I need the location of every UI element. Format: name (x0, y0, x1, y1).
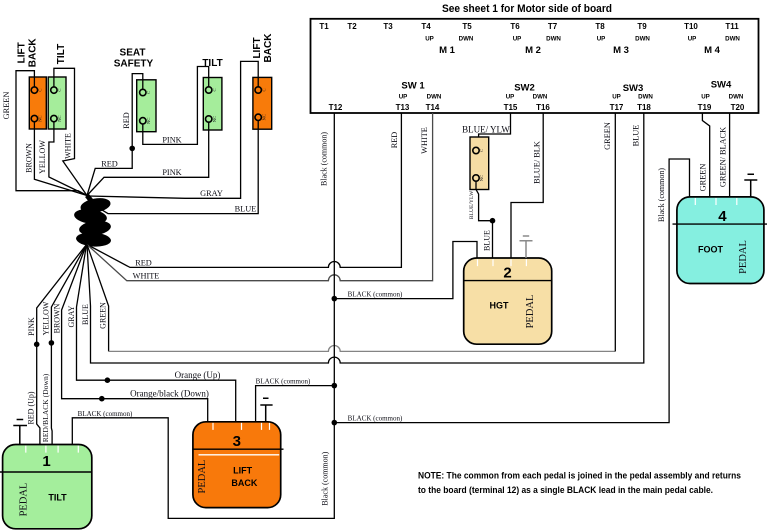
S4 terminals (206, 87, 217, 122)
node junction pedal4 common (332, 420, 338, 426)
svg-text:GREEN: GREEN (698, 164, 707, 192)
svg-text:Black (common): Black (common) (320, 132, 329, 186)
node junction pedal2 common (332, 296, 338, 302)
svg-text:RED/BLACK (Down): RED/BLACK (Down) (41, 373, 50, 442)
svg-text:BLUE/ BLK: BLUE/ BLK (532, 141, 541, 184)
node splice BLUE (490, 218, 496, 224)
wire BLUE: S5 NC terminal to cable top (97, 120, 258, 213)
svg-text:PINK: PINK (162, 135, 181, 144)
svg-text:GREEN: GREEN (98, 302, 107, 329)
svg-text:BLACK (common): BLACK (common) (348, 414, 403, 422)
svg-text:GREEN/ BLACK: GREEN/ BLACK (718, 127, 727, 187)
svg-text:BACK: BACK (263, 33, 274, 63)
wire BLUE/YLW: S6 NC to splice (476, 181, 493, 221)
svg-text:DWN: DWN (725, 36, 740, 43)
svg-text:BLACK (common): BLACK (common) (78, 410, 133, 418)
svg-text:DWN: DWN (459, 36, 474, 43)
svg-text:T15: T15 (504, 103, 518, 112)
svg-text:C: C (146, 91, 151, 94)
wire BLACK common branch to pedal 2 (334, 242, 477, 299)
svg-text:C: C (479, 149, 484, 152)
svg-text:UP: UP (688, 36, 697, 43)
svg-text:DWN: DWN (638, 94, 653, 101)
svg-text:SEAT: SEAT (120, 48, 146, 59)
svg-text:HGT: HGT (490, 301, 510, 311)
svg-text:BROWN: BROWN (25, 143, 34, 173)
svg-text:WHITE: WHITE (133, 271, 160, 280)
svg-text:PINK: PINK (162, 168, 181, 177)
svg-text:to the board (terminal 12) as: to the board (terminal 12) as a single B… (418, 485, 713, 496)
wire RED: cable to T13 (87, 113, 401, 267)
S2 terminals (51, 87, 62, 122)
svg-text:NC: NC (38, 115, 43, 121)
svg-text:GRAY: GRAY (200, 189, 223, 198)
svg-text:T12: T12 (329, 103, 343, 112)
svg-text:C: C (57, 89, 62, 92)
svg-text:T19: T19 (698, 103, 712, 112)
wire YELLOW / RED/BLACK (Down): cable to pedal 1 (51, 245, 86, 445)
svg-text:NC: NC (261, 114, 266, 120)
svg-text:T4: T4 (421, 22, 431, 31)
svg-text:M 3: M 3 (613, 45, 629, 56)
svg-text:BLUE: BLUE (482, 230, 491, 251)
svg-text:T10: T10 (684, 22, 698, 31)
svg-text:SW3: SW3 (623, 83, 644, 94)
svg-text:SW 1: SW 1 (401, 81, 425, 92)
svg-text:UP: UP (425, 36, 434, 43)
svg-text:PEDAL: PEDAL (19, 483, 30, 517)
svg-text:FOOT: FOOT (698, 245, 723, 255)
svg-text:RED: RED (101, 160, 118, 169)
svg-text:BLUE: BLUE (632, 125, 641, 147)
svg-text:Black (common): Black (common) (321, 451, 330, 505)
svg-text:NC: NC (57, 115, 62, 121)
switch S5 LIFT BACK-2 (orange) (253, 77, 272, 129)
svg-text:NC: NC (212, 116, 217, 122)
svg-text:4: 4 (718, 208, 727, 225)
svg-text:T14: T14 (426, 103, 440, 112)
switch S6 BLUE/YLW (tan) (470, 137, 489, 190)
svg-text:T6: T6 (510, 22, 520, 31)
wire BLUE: splice to pedal 2 (492, 221, 494, 258)
svg-text:NOTE: The common from each pe: NOTE: The common from each pedal is join… (418, 471, 741, 482)
svg-text:YELLOW: YELLOW (38, 140, 47, 174)
svg-text:WHITE: WHITE (63, 133, 72, 159)
node splice GRAY/ORANGE (105, 377, 111, 383)
svg-text:NC: NC (146, 118, 151, 124)
svg-text:T18: T18 (637, 103, 651, 112)
svg-text:RED: RED (390, 132, 399, 149)
svg-text:LIFT: LIFT (17, 42, 28, 63)
svg-text:Orange/black (Down): Orange/black (Down) (130, 389, 209, 399)
svg-text:Orange (Up): Orange (Up) (175, 370, 221, 380)
svg-text:UP: UP (597, 36, 606, 43)
svg-text:BACK: BACK (28, 38, 39, 68)
wire PINK: S3 NC to S4 C (143, 67, 209, 145)
ground pedal 2 (520, 236, 533, 258)
svg-text:PEDAL: PEDAL (738, 240, 749, 274)
pedal 1 TILT (green) (0, 445, 92, 529)
node splice YELLOW/REDBLACK (49, 340, 55, 346)
wire GRAY: S5 C terminal to cable top (88, 61, 258, 198)
svg-text:DWN: DWN (635, 36, 650, 43)
svg-text:DWN: DWN (546, 36, 561, 43)
S6 terminals (473, 147, 484, 181)
node splice on RED (129, 146, 135, 152)
svg-text:BLUE/YLW: BLUE/YLW (469, 190, 475, 219)
svg-text:BLUE/ YLW: BLUE/ YLW (462, 125, 510, 135)
svg-text:1: 1 (42, 453, 50, 470)
switch S4 TILT-2 (green) (203, 78, 222, 131)
switch S1 LIFT BACK (orange) (29, 77, 46, 129)
S3 terminals (140, 89, 151, 124)
svg-text:T13: T13 (396, 103, 410, 112)
svg-text:T17: T17 (610, 103, 624, 112)
svg-text:T16: T16 (536, 103, 550, 112)
label S1 LIFT BACK (17, 38, 39, 68)
svg-text:GREEN: GREEN (603, 122, 612, 150)
svg-text:2: 2 (503, 265, 511, 282)
svg-text:C: C (261, 88, 266, 91)
svg-text:T11: T11 (725, 22, 739, 31)
wire BLACK common branch to pedal 4 (334, 159, 689, 423)
svg-text:GRAY: GRAY (67, 305, 76, 327)
svg-text:UP: UP (513, 36, 522, 43)
svg-text:SW4: SW4 (711, 80, 732, 91)
svg-text:TILT: TILT (56, 44, 67, 64)
svg-text:T3: T3 (383, 22, 393, 31)
svg-text:T1: T1 (319, 22, 329, 31)
wire BROWN: S1 NC terminal to cable top (34, 122, 87, 196)
wire BLUE/YLW: T15 to S6 (479, 113, 511, 137)
svg-text:PINK: PINK (27, 317, 36, 336)
wire BLACK common branch to pedal 3 (256, 386, 335, 422)
svg-text:C: C (212, 88, 217, 91)
wire YELLOW: S2 NC terminal to cable top (49, 122, 87, 196)
wire PINK-2: S4 NC to cable top (87, 122, 209, 195)
svg-text:SAFETY: SAFETY (114, 59, 154, 70)
wire WHITE: S2 C terminal to cable top (54, 68, 87, 195)
wire BLUE: cable to T18 (87, 113, 644, 363)
coiled main pedal cable (73, 196, 112, 248)
svg-text:BLACK (common): BLACK (common) (348, 290, 403, 298)
wire GREEN: T19 to pedal 4 (702, 113, 709, 197)
svg-text:TILT: TILT (202, 58, 222, 69)
svg-text:M 2: M 2 (525, 45, 541, 56)
svg-text:RED (Up): RED (Up) (26, 391, 35, 424)
svg-text:RED: RED (135, 258, 152, 267)
wire GREEN: S1 C terminal to cable top (16, 71, 87, 196)
wire BROWN / Orange/black (Down): cable to pedal 3 (62, 245, 208, 422)
svg-text:DWN: DWN (533, 94, 548, 101)
wire BLUE/BLK: T16 to pedal 2 (511, 113, 543, 258)
svg-text:BACK: BACK (231, 478, 257, 488)
svg-text:T20: T20 (731, 103, 745, 112)
svg-text:See sheet 1 for Motor side of: See sheet 1 for Motor side of board (442, 3, 612, 15)
svg-text:T5: T5 (462, 22, 472, 31)
wire RED: S3 C terminal to cable top (87, 74, 143, 196)
svg-text:GREEN: GREEN (2, 92, 11, 120)
terminal board (motor side) (311, 19, 759, 113)
svg-text:Black (common): Black (common) (657, 168, 666, 222)
pedal 2 HGT (tan) (464, 258, 552, 344)
svg-text:T2: T2 (347, 22, 357, 31)
wire GREEN: cable to T17 (87, 245, 109, 352)
svg-text:M 4: M 4 (704, 45, 721, 56)
svg-text:LIFT: LIFT (233, 466, 252, 476)
ground pedal 1 (13, 420, 27, 445)
svg-text:UP: UP (506, 94, 515, 101)
svg-text:PEDAL: PEDAL (197, 460, 208, 494)
svg-text:LIFT: LIFT (252, 37, 263, 58)
svg-text:BLUE: BLUE (81, 304, 90, 325)
wire BLACK common: T12 down, around to pedal 1 (72, 113, 334, 518)
svg-text:BLUE: BLUE (235, 204, 257, 213)
pedal 3 LIFT BACK (orange) (193, 422, 284, 508)
svg-text:BLACK (common): BLACK (common) (256, 377, 311, 385)
svg-text:SW2: SW2 (514, 83, 535, 94)
svg-text:UP: UP (399, 94, 408, 101)
ground pedal 3 (260, 398, 272, 422)
svg-text:UP: UP (701, 94, 710, 101)
svg-text:NC: NC (479, 175, 484, 181)
svg-text:PEDAL: PEDAL (525, 295, 536, 329)
wire GRAY / Orange (Up): cable to pedal 3 (77, 245, 236, 422)
note text (418, 471, 741, 497)
svg-text:UP: UP (612, 94, 621, 101)
svg-text:DWN: DWN (729, 94, 744, 101)
svg-text:T8: T8 (595, 22, 605, 31)
label S5 LIFT BACK (252, 33, 274, 63)
pedal 4 FOOT (turquoise) (673, 197, 768, 284)
svg-text:TILT: TILT (48, 493, 67, 503)
svg-text:WHITE: WHITE (420, 127, 429, 154)
svg-text:C: C (38, 89, 43, 92)
switch S2 TILT (green) (48, 77, 66, 129)
switch S3 SEAT SAFETY (green) (137, 80, 156, 132)
label S3 SEAT SAFETY (114, 48, 154, 70)
svg-text:M 1: M 1 (439, 45, 456, 56)
wire GREEN/BLACK: T20 to pedal 4 (729, 113, 731, 197)
svg-text:YELLOW: YELLOW (42, 301, 51, 335)
wire PINK / RED (Up): cable to pedal 1 (37, 245, 87, 445)
ground pedal 4 (744, 174, 757, 197)
svg-text:3: 3 (233, 433, 241, 450)
node junction pedal3 common (332, 383, 338, 389)
svg-text:DWN: DWN (427, 94, 442, 101)
wire WHITE: cable to T14 (87, 113, 433, 281)
node splice PINK/RED (34, 342, 40, 348)
node splice BROWN/ORANGEBLACK (99, 396, 105, 402)
svg-text:T7: T7 (548, 22, 558, 31)
svg-text:RED: RED (122, 112, 131, 129)
S5 terminals (255, 87, 266, 121)
svg-text:T9: T9 (637, 22, 647, 31)
S1 terminals (31, 87, 42, 122)
svg-text:BROWN: BROWN (53, 303, 62, 333)
